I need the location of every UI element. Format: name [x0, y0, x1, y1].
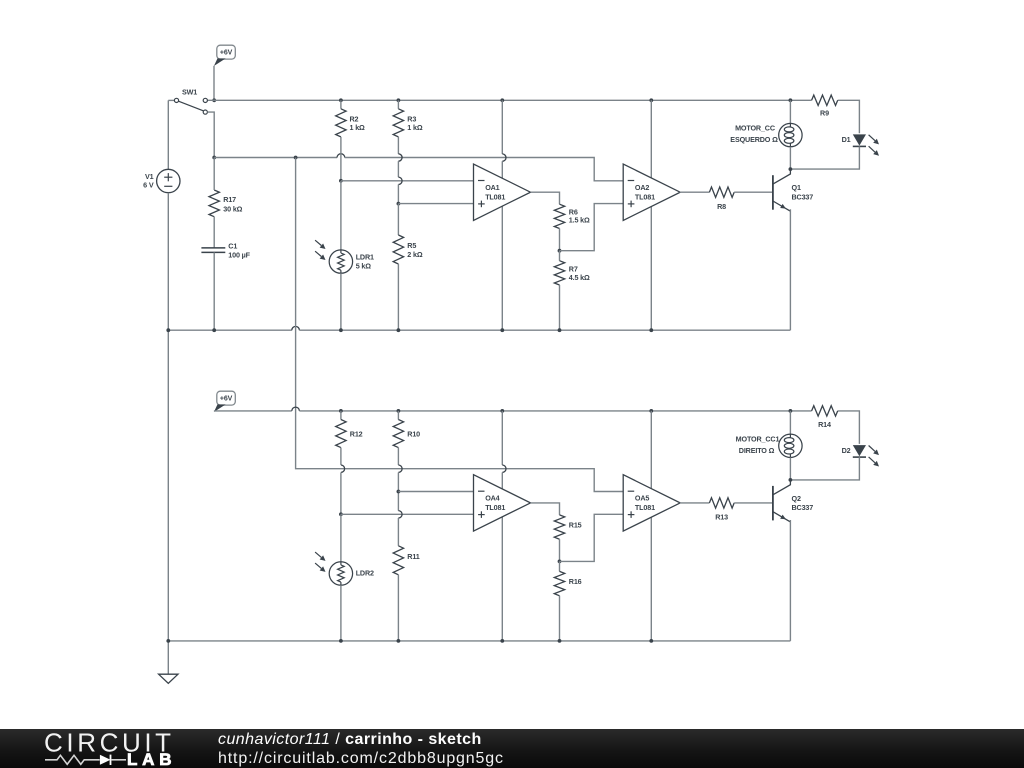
photoresistor LDR2: [340, 514, 342, 562]
svg-text:D2: D2: [842, 446, 851, 455]
wire R10 to R11 (hops over ref and plus wires): [397, 448, 399, 465]
svg-text:ESQUERDO Ω: ESQUERDO Ω: [730, 135, 778, 144]
svg-text:4.5 kΩ: 4.5 kΩ: [569, 273, 590, 282]
wire ref vertical down to OA5 minus: [296, 158, 624, 492]
svg-text:TL081: TL081: [485, 192, 505, 201]
svg-text:BC337: BC337: [792, 503, 814, 512]
node bottom rail x=398.4: [397, 328, 401, 332]
svg-text:100 µF: 100 µF: [228, 251, 250, 260]
svg-text:LDR1: LDR1: [356, 253, 374, 262]
wire top rail: [207, 99, 811, 101]
svg-text:OA4: OA4: [485, 494, 499, 503]
wire R13 to Q2 base: [734, 502, 772, 504]
node R6/R7 feedback: [558, 249, 562, 253]
wire OA5 output to R13: [680, 502, 710, 504]
CircuitLab logo: [36, 730, 236, 768]
wire R2/LDR1 node to OA1 minus input: [341, 180, 474, 182]
svg-text:DIREITO Ω: DIREITO Ω: [739, 446, 775, 455]
svg-text:5 kΩ: 5 kΩ: [356, 262, 372, 271]
svg-text:OA5: OA5: [635, 494, 649, 503]
resistor R2: [340, 100, 342, 109]
node bottom rail 2 x=168.3: [166, 639, 170, 643]
node bottom rail x=559.5: [558, 328, 562, 332]
node bottom rail x=168.3: [166, 328, 170, 332]
op-amp OA2: [623, 164, 680, 220]
wire OA5 supply rail: [650, 411, 652, 641]
node R12/LDR2 to OA4 plus: [339, 512, 343, 516]
wire bottom rail (bottom section): [168, 640, 790, 642]
node R15/R16 feedback: [558, 560, 562, 564]
motor MOTOR_CC: [789, 100, 791, 123]
node top rail / OA1 supply: [500, 98, 504, 102]
svg-text:R13: R13: [715, 513, 728, 522]
svg-text:LAB: LAB: [127, 750, 176, 768]
wire OA1 output to R6: [531, 192, 560, 204]
node bottom rail x=651.3: [649, 328, 653, 332]
resistor R11: [393, 546, 403, 575]
wire +6V rail (bottom, hop over ref vertical): [214, 410, 292, 412]
svg-text:R5: R5: [407, 241, 416, 250]
node bottom rail x=214.2: [212, 328, 216, 332]
svg-text:OA1: OA1: [485, 183, 499, 192]
wire R12 to LDR2 node (hop over ref wire): [340, 448, 342, 465]
resistor R14: [812, 406, 838, 416]
svg-text:1.5 kΩ: 1.5 kΩ: [569, 216, 590, 225]
svg-text:R9: R9: [820, 108, 829, 117]
wire SW1 lower terminal to R17 node: [207, 112, 214, 157]
power flag +6V (bottom): [217, 391, 236, 405]
motor MOTOR_CC1: [789, 411, 791, 434]
wire V1 top to SW1: [167, 100, 169, 169]
svg-text:R10: R10: [407, 430, 420, 439]
transistor Q1: [772, 175, 774, 210]
wire Q2 emitter to bottom rail: [789, 520, 791, 641]
wire R10/R11 node to OA4 minus input: [398, 491, 473, 493]
node R2/LDR1 to OA1 minus: [339, 179, 343, 183]
op-amp OA1: [474, 164, 531, 220]
resistor R16: [559, 561, 561, 571]
svg-text:R15: R15: [569, 520, 582, 529]
svg-text:R12: R12: [350, 430, 363, 439]
node bottom rail 2 x=398.4: [397, 639, 401, 643]
wire D2 to collector node: [790, 457, 859, 480]
node +6V rail x=502.3: [500, 409, 504, 413]
svg-text:TL081: TL081: [485, 503, 505, 512]
resistor R5: [397, 204, 399, 235]
svg-text:MOTOR_CC: MOTOR_CC: [735, 124, 775, 133]
svg-text:V1: V1: [145, 172, 154, 181]
capacitor C1: [201, 247, 225, 249]
wire feedback to OA2 plus: [560, 204, 624, 251]
node +6V/top-rail junction: [212, 98, 216, 102]
wire OA1 supply rail (hop over ref wire): [501, 100, 503, 154]
wire D1 to collector node: [790, 146, 859, 169]
svg-text:R16: R16: [569, 577, 582, 586]
node top rail / R2: [339, 98, 343, 102]
wire OA4 supply rail (hop over ref wire): [501, 411, 503, 465]
svg-text:LDR2: LDR2: [356, 568, 374, 577]
node bottom rail x=502.3: [500, 328, 504, 332]
node Q1 collector: [789, 167, 793, 171]
resistor R13: [709, 498, 734, 508]
resistor R8: [709, 187, 734, 197]
svg-text:Q2: Q2: [792, 494, 801, 503]
footer title text: [218, 731, 504, 767]
svg-text:R11: R11: [407, 552, 419, 561]
node R10/R11 to OA4 minus: [397, 490, 401, 494]
wire R3 to R5 (hops over ref and minus wires): [397, 137, 399, 154]
svg-text:Q1: Q1: [792, 183, 801, 192]
wire OA2 supply rail: [650, 100, 652, 330]
svg-text:+6V: +6V: [220, 49, 233, 56]
svg-text:SW1: SW1: [182, 88, 197, 97]
svg-text:R14: R14: [818, 420, 831, 429]
svg-text:C1: C1: [228, 242, 237, 251]
svg-text:2 kΩ: 2 kΩ: [407, 250, 423, 259]
svg-text:TL081: TL081: [635, 192, 655, 201]
wire ref node to OA2 minus (hop over R2 rail): [214, 157, 337, 159]
transistor Q2: [772, 486, 774, 521]
node +6V rail x=398.4: [397, 409, 401, 413]
resistor R17: [209, 190, 219, 217]
node +6V rail x=790.4: [789, 409, 793, 413]
wire V1 bottom / left rail to ground: [167, 193, 169, 675]
resistor R7: [559, 251, 561, 261]
ground: [159, 674, 178, 683]
wire R8 to Q1 base: [734, 191, 772, 193]
node bottom rail 2 x=651.3: [649, 639, 653, 643]
LED D1: [858, 132, 860, 134]
node top rail / R3: [397, 98, 401, 102]
switch SW1: [168, 99, 174, 101]
svg-text:TL081: TL081: [635, 503, 655, 512]
svg-text:6 V: 6 V: [143, 181, 154, 190]
svg-text:R8: R8: [717, 202, 726, 211]
wire +6V tag to top rail: [213, 66, 215, 101]
node bottom rail 2 x=340.9: [339, 639, 343, 643]
wire OA4 output to R15: [531, 503, 560, 515]
node bottom rail 2 x=559.5: [558, 639, 562, 643]
node bottom rail x=340.9: [339, 328, 343, 332]
wire bottom rail (top section, hop over ref vertical): [168, 329, 291, 331]
resistor R10: [397, 411, 399, 420]
node +6V rail x=340.9: [339, 409, 343, 413]
node R3/R5 to OA1 plus: [397, 202, 401, 206]
wire R12/LDR2 node to OA4 plus input: [341, 513, 474, 515]
svg-text:BC337: BC337: [792, 192, 814, 201]
wire R3/R5 node to OA1 plus input: [398, 203, 473, 205]
wire Q1 emitter to bottom rail: [789, 209, 791, 330]
resistor R3: [397, 100, 399, 109]
svg-text:MOTOR_CC1: MOTOR_CC1: [736, 434, 780, 443]
wire top rail right + down to D1: [838, 100, 860, 133]
photoresistor LDR1: [340, 181, 342, 250]
wire feedback to OA5 plus: [560, 514, 624, 561]
node motor top: [789, 98, 793, 102]
svg-text:R17: R17: [223, 195, 236, 204]
node bottom rail 2 x=502.3: [500, 639, 504, 643]
LED D2: [853, 445, 866, 456]
voltage source V1: [157, 169, 180, 192]
svg-text:1 kΩ: 1 kΩ: [350, 123, 366, 132]
node +6V rail x=651.3: [649, 409, 653, 413]
node ref vertical/top: [294, 156, 298, 160]
wire +6V rail right + down to D2: [838, 411, 860, 444]
svg-text:OA2: OA2: [635, 183, 649, 192]
power flag +6V (top): [217, 45, 236, 59]
op-amp OA4: [474, 475, 531, 531]
resistor R12: [340, 411, 342, 420]
node ref wire start: [212, 156, 216, 160]
op-amp OA5: [623, 475, 680, 531]
resistor R6: [554, 204, 564, 228]
node top rail / OA2 supply: [649, 98, 653, 102]
resistor R9: [812, 95, 838, 105]
svg-text:+6V: +6V: [220, 395, 233, 402]
svg-text:30 kΩ: 30 kΩ: [223, 204, 242, 213]
node Q2 collector: [789, 478, 793, 482]
wire OA2 output to R8: [680, 191, 710, 193]
resistor R15: [554, 515, 564, 539]
svg-text:D1: D1: [842, 135, 851, 144]
svg-text:1 kΩ: 1 kΩ: [407, 123, 423, 132]
